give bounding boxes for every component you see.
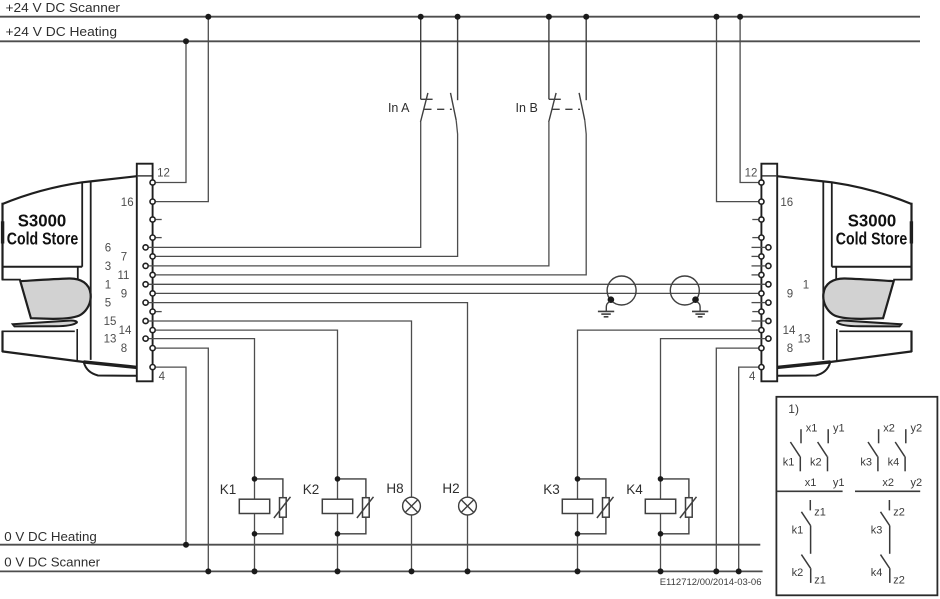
SECTION: switch In A bbox=[421, 17, 458, 122]
stub right pin 3 bbox=[752, 265, 766, 267]
svg-text:H8: H8 bbox=[386, 481, 403, 496]
wire left pin16 to +24V scanner bbox=[156, 17, 208, 202]
scanner U1 name text bbox=[7, 211, 79, 249]
svg-text:13: 13 bbox=[104, 334, 117, 346]
svg-text:14: 14 bbox=[783, 325, 796, 337]
wire K2 branch lower bbox=[337, 534, 339, 572]
wire right pin4 to 0V scanner bbox=[739, 367, 758, 571]
stub right spare a bbox=[752, 219, 758, 221]
svg-text:3: 3 bbox=[105, 261, 111, 273]
svg-text:K3: K3 bbox=[543, 482, 560, 497]
relay K1 bbox=[239, 476, 290, 536]
svg-text:k4: k4 bbox=[871, 567, 883, 579]
svg-text:k3: k3 bbox=[860, 457, 872, 469]
stub right pin 15 bbox=[752, 320, 766, 322]
svg-text:k2: k2 bbox=[810, 457, 822, 469]
svg-text:k1: k1 bbox=[792, 525, 804, 537]
wire left pin5 to lamp H2 bbox=[149, 303, 468, 498]
junction left pin4 at 0V heating bbox=[183, 542, 189, 548]
svg-text:9: 9 bbox=[787, 289, 793, 301]
wire K1 branch lower bbox=[254, 534, 256, 572]
SECTION: unused pin stubs bbox=[156, 220, 765, 322]
wire 0V DC Scanner rail bbox=[0, 570, 763, 572]
svg-text:4: 4 bbox=[749, 371, 756, 383]
switch In A right upper leg bbox=[457, 17, 459, 101]
svg-text:8: 8 bbox=[121, 343, 127, 355]
switch In B right blade bbox=[579, 93, 585, 121]
svg-text:Cold Store: Cold Store bbox=[7, 229, 79, 249]
junction In B right at +24V scanner bbox=[583, 14, 589, 20]
wire +24V DC Heating rail bbox=[0, 40, 920, 42]
svg-text:12: 12 bbox=[157, 168, 170, 180]
legend contact k4 bbox=[895, 429, 906, 471]
svg-text:16: 16 bbox=[780, 197, 793, 209]
wire right pin8 to 0V scanner bbox=[716, 348, 758, 571]
svg-text:11: 11 bbox=[118, 270, 130, 282]
wire left pin3 to In B left leg bbox=[149, 122, 549, 266]
svg-text:k1: k1 bbox=[783, 457, 795, 469]
wire K4 branch lower bbox=[660, 534, 662, 572]
wire right pin13 to relay K4 bbox=[661, 339, 766, 479]
junction K4 at 0V scanner bbox=[658, 568, 664, 574]
switch In A left contact foot bbox=[421, 98, 433, 100]
junction K3 at 0V scanner bbox=[575, 568, 581, 574]
wire EFI B pin9 to pin9 bbox=[156, 292, 758, 294]
wire +24V DC Scanner rail bbox=[0, 16, 920, 18]
shield 1 junction dot bbox=[608, 296, 615, 303]
svg-text:H2: H2 bbox=[442, 481, 459, 496]
wire K3 branch lower bbox=[577, 534, 579, 572]
svg-text:k4: k4 bbox=[888, 457, 900, 469]
svg-text:K4: K4 bbox=[626, 482, 643, 497]
junction right pin16 at +24V scanner bbox=[714, 14, 720, 20]
svg-text:E112712/00/2014-03-06: E112712/00/2014-03-06 bbox=[660, 577, 762, 588]
legend contact k1 bbox=[790, 429, 801, 471]
junction right pin8 at 0V scanner bbox=[713, 568, 719, 574]
wire EFI A pin1 to pin1 bbox=[149, 283, 765, 285]
stub left spare b bbox=[156, 237, 162, 239]
switch In B left upper leg bbox=[548, 17, 550, 100]
wire left pin8 to 0V scanner bbox=[156, 348, 208, 571]
stub right pin 7 bbox=[752, 255, 759, 257]
stub left spare c bbox=[156, 311, 162, 313]
wire right pin16 to +24V scanner bbox=[717, 17, 759, 202]
svg-text:5: 5 bbox=[105, 298, 111, 310]
switch In A right blade bbox=[451, 93, 457, 121]
svg-text:1: 1 bbox=[105, 279, 111, 291]
svg-text:4: 4 bbox=[159, 371, 166, 383]
svg-text:K1: K1 bbox=[220, 482, 237, 497]
svg-text:x2: x2 bbox=[882, 477, 894, 489]
wire left pin15 to lamp H8 bbox=[149, 321, 412, 497]
switch In B left contact foot bbox=[549, 98, 561, 100]
svg-text:Cold Store: Cold Store bbox=[836, 229, 908, 249]
junction H2 at 0V scanner bbox=[465, 568, 471, 574]
svg-text:0 V DC Heating: 0 V DC Heating bbox=[4, 529, 97, 544]
legend separator line 1 bbox=[777, 490, 843, 492]
svg-text:S3000: S3000 bbox=[18, 211, 67, 231]
wire left pin12 to +24V heating bbox=[156, 41, 186, 182]
svg-text:y2: y2 bbox=[911, 477, 923, 489]
SECTION: wires bbox=[149, 17, 765, 572]
stub right pin 6 bbox=[752, 246, 766, 248]
legend contact k2 bbox=[818, 429, 829, 471]
ground symbol 2 bbox=[692, 311, 708, 316]
legend chain z1 bbox=[801, 500, 810, 583]
svg-text:S3000: S3000 bbox=[848, 211, 897, 231]
junction In B left at +24V scanner bbox=[546, 14, 552, 20]
lamp H8 bbox=[403, 497, 421, 515]
wire left pin7 to In A right leg bbox=[156, 120, 458, 256]
svg-text:In B: In B bbox=[516, 101, 538, 115]
scanner U2 body (right, S3000 Cold Store, mirrored) bbox=[759, 164, 913, 382]
wire right pin12 to +24V scanner bbox=[740, 17, 758, 183]
wire right pin14 to relay K3 bbox=[578, 330, 759, 479]
switch In B left blade bbox=[549, 93, 556, 122]
svg-text:16: 16 bbox=[121, 197, 134, 209]
junction In A right at +24V scanner bbox=[455, 14, 461, 20]
svg-text:z2: z2 bbox=[893, 575, 905, 587]
junction right pin4 at 0V scanner bbox=[736, 568, 742, 574]
legend contact k3 bbox=[868, 429, 879, 471]
switch In A left upper leg bbox=[420, 17, 422, 100]
junction K2 at 0V scanner bbox=[335, 568, 341, 574]
stub left spare a bbox=[156, 219, 162, 221]
wire H2 lower bbox=[467, 515, 469, 571]
lamp H2 bbox=[459, 497, 477, 515]
svg-text:+24 V DC Scanner: +24 V DC Scanner bbox=[6, 0, 121, 15]
scanner U1 body (left, S3000 Cold Store) bbox=[2, 164, 156, 382]
svg-text:y1: y1 bbox=[833, 477, 845, 489]
wire left pin11 to In B right leg bbox=[156, 120, 586, 275]
svg-text:6: 6 bbox=[105, 243, 111, 255]
shield 2 junction dot bbox=[692, 296, 699, 303]
stub right spare b bbox=[752, 237, 758, 239]
switch In A left blade bbox=[421, 93, 428, 122]
SECTION: junction dots bbox=[183, 14, 743, 575]
shield circle 2 bbox=[670, 276, 699, 305]
svg-text:x1: x1 bbox=[805, 477, 817, 489]
svg-text:12: 12 bbox=[745, 168, 758, 180]
stub right spare c bbox=[752, 311, 758, 313]
wire left pin4 to 0V heating bbox=[156, 367, 186, 545]
relay K4 bbox=[645, 476, 696, 536]
svg-text:9: 9 bbox=[121, 289, 127, 301]
wire H8 lower bbox=[411, 515, 413, 571]
svg-text:z1: z1 bbox=[814, 507, 826, 519]
svg-text:x1: x1 bbox=[806, 423, 818, 435]
svg-text:0 V DC Scanner: 0 V DC Scanner bbox=[4, 554, 100, 569]
SECTION: pin number labels right scanner bbox=[745, 168, 811, 384]
shield 2 ground stem bbox=[697, 302, 700, 311]
svg-text:7: 7 bbox=[121, 252, 127, 264]
svg-text:K2: K2 bbox=[303, 482, 320, 497]
legend frame bbox=[776, 397, 937, 596]
SECTION: switch In B bbox=[549, 17, 587, 122]
wire left pin13 to relay K1 bbox=[149, 339, 255, 479]
relay K2 bbox=[322, 476, 373, 536]
junction left pin16 at +24V scanner bbox=[205, 14, 211, 20]
svg-text:13: 13 bbox=[798, 334, 811, 346]
junction H8 at 0V scanner bbox=[409, 568, 415, 574]
wire left pin6 to In A left leg bbox=[149, 122, 421, 247]
stub right pin 11 bbox=[752, 274, 759, 276]
legend chain z2 bbox=[881, 500, 890, 583]
ground symbol 1 bbox=[598, 311, 614, 316]
switch In B mechanical link dashed bbox=[553, 108, 581, 110]
relay K3 bbox=[562, 476, 613, 536]
svg-text:15: 15 bbox=[104, 316, 117, 328]
svg-text:y2: y2 bbox=[911, 423, 923, 435]
junction left pin8 at 0V scanner bbox=[205, 568, 211, 574]
svg-text:k3: k3 bbox=[871, 525, 883, 537]
stub right pin 5 bbox=[752, 302, 766, 304]
junction In A left at +24V scanner bbox=[418, 14, 424, 20]
svg-text:x2: x2 bbox=[883, 423, 895, 435]
wire left pin14 to relay K2 bbox=[156, 330, 338, 479]
SECTION: pin number labels left scanner bbox=[104, 168, 170, 384]
svg-text:1): 1) bbox=[788, 402, 799, 416]
svg-text:+24 V DC Heating: +24 V DC Heating bbox=[6, 24, 118, 39]
svg-text:8: 8 bbox=[787, 343, 793, 355]
junction K1 at 0V scanner bbox=[252, 568, 258, 574]
svg-text:k2: k2 bbox=[792, 567, 804, 579]
junction right pin12 at +24V scanner bbox=[737, 14, 743, 20]
wire 0V DC Heating rail bbox=[0, 544, 760, 546]
shield 1 ground stem bbox=[606, 302, 609, 311]
svg-text:z1: z1 bbox=[814, 575, 826, 587]
svg-text:14: 14 bbox=[119, 325, 132, 337]
svg-text:In A: In A bbox=[388, 101, 410, 115]
junction left pin12 at +24V heating bbox=[183, 38, 189, 44]
svg-text:1: 1 bbox=[803, 279, 809, 291]
switch In B right upper leg bbox=[585, 17, 587, 101]
svg-text:z2: z2 bbox=[893, 507, 905, 519]
legend separator line 2 bbox=[855, 490, 920, 492]
switch In A mechanical link dashed bbox=[424, 108, 452, 110]
svg-text:y1: y1 bbox=[833, 423, 845, 435]
shield circle 1 bbox=[607, 276, 636, 305]
scanner U2 name text bbox=[836, 211, 908, 249]
